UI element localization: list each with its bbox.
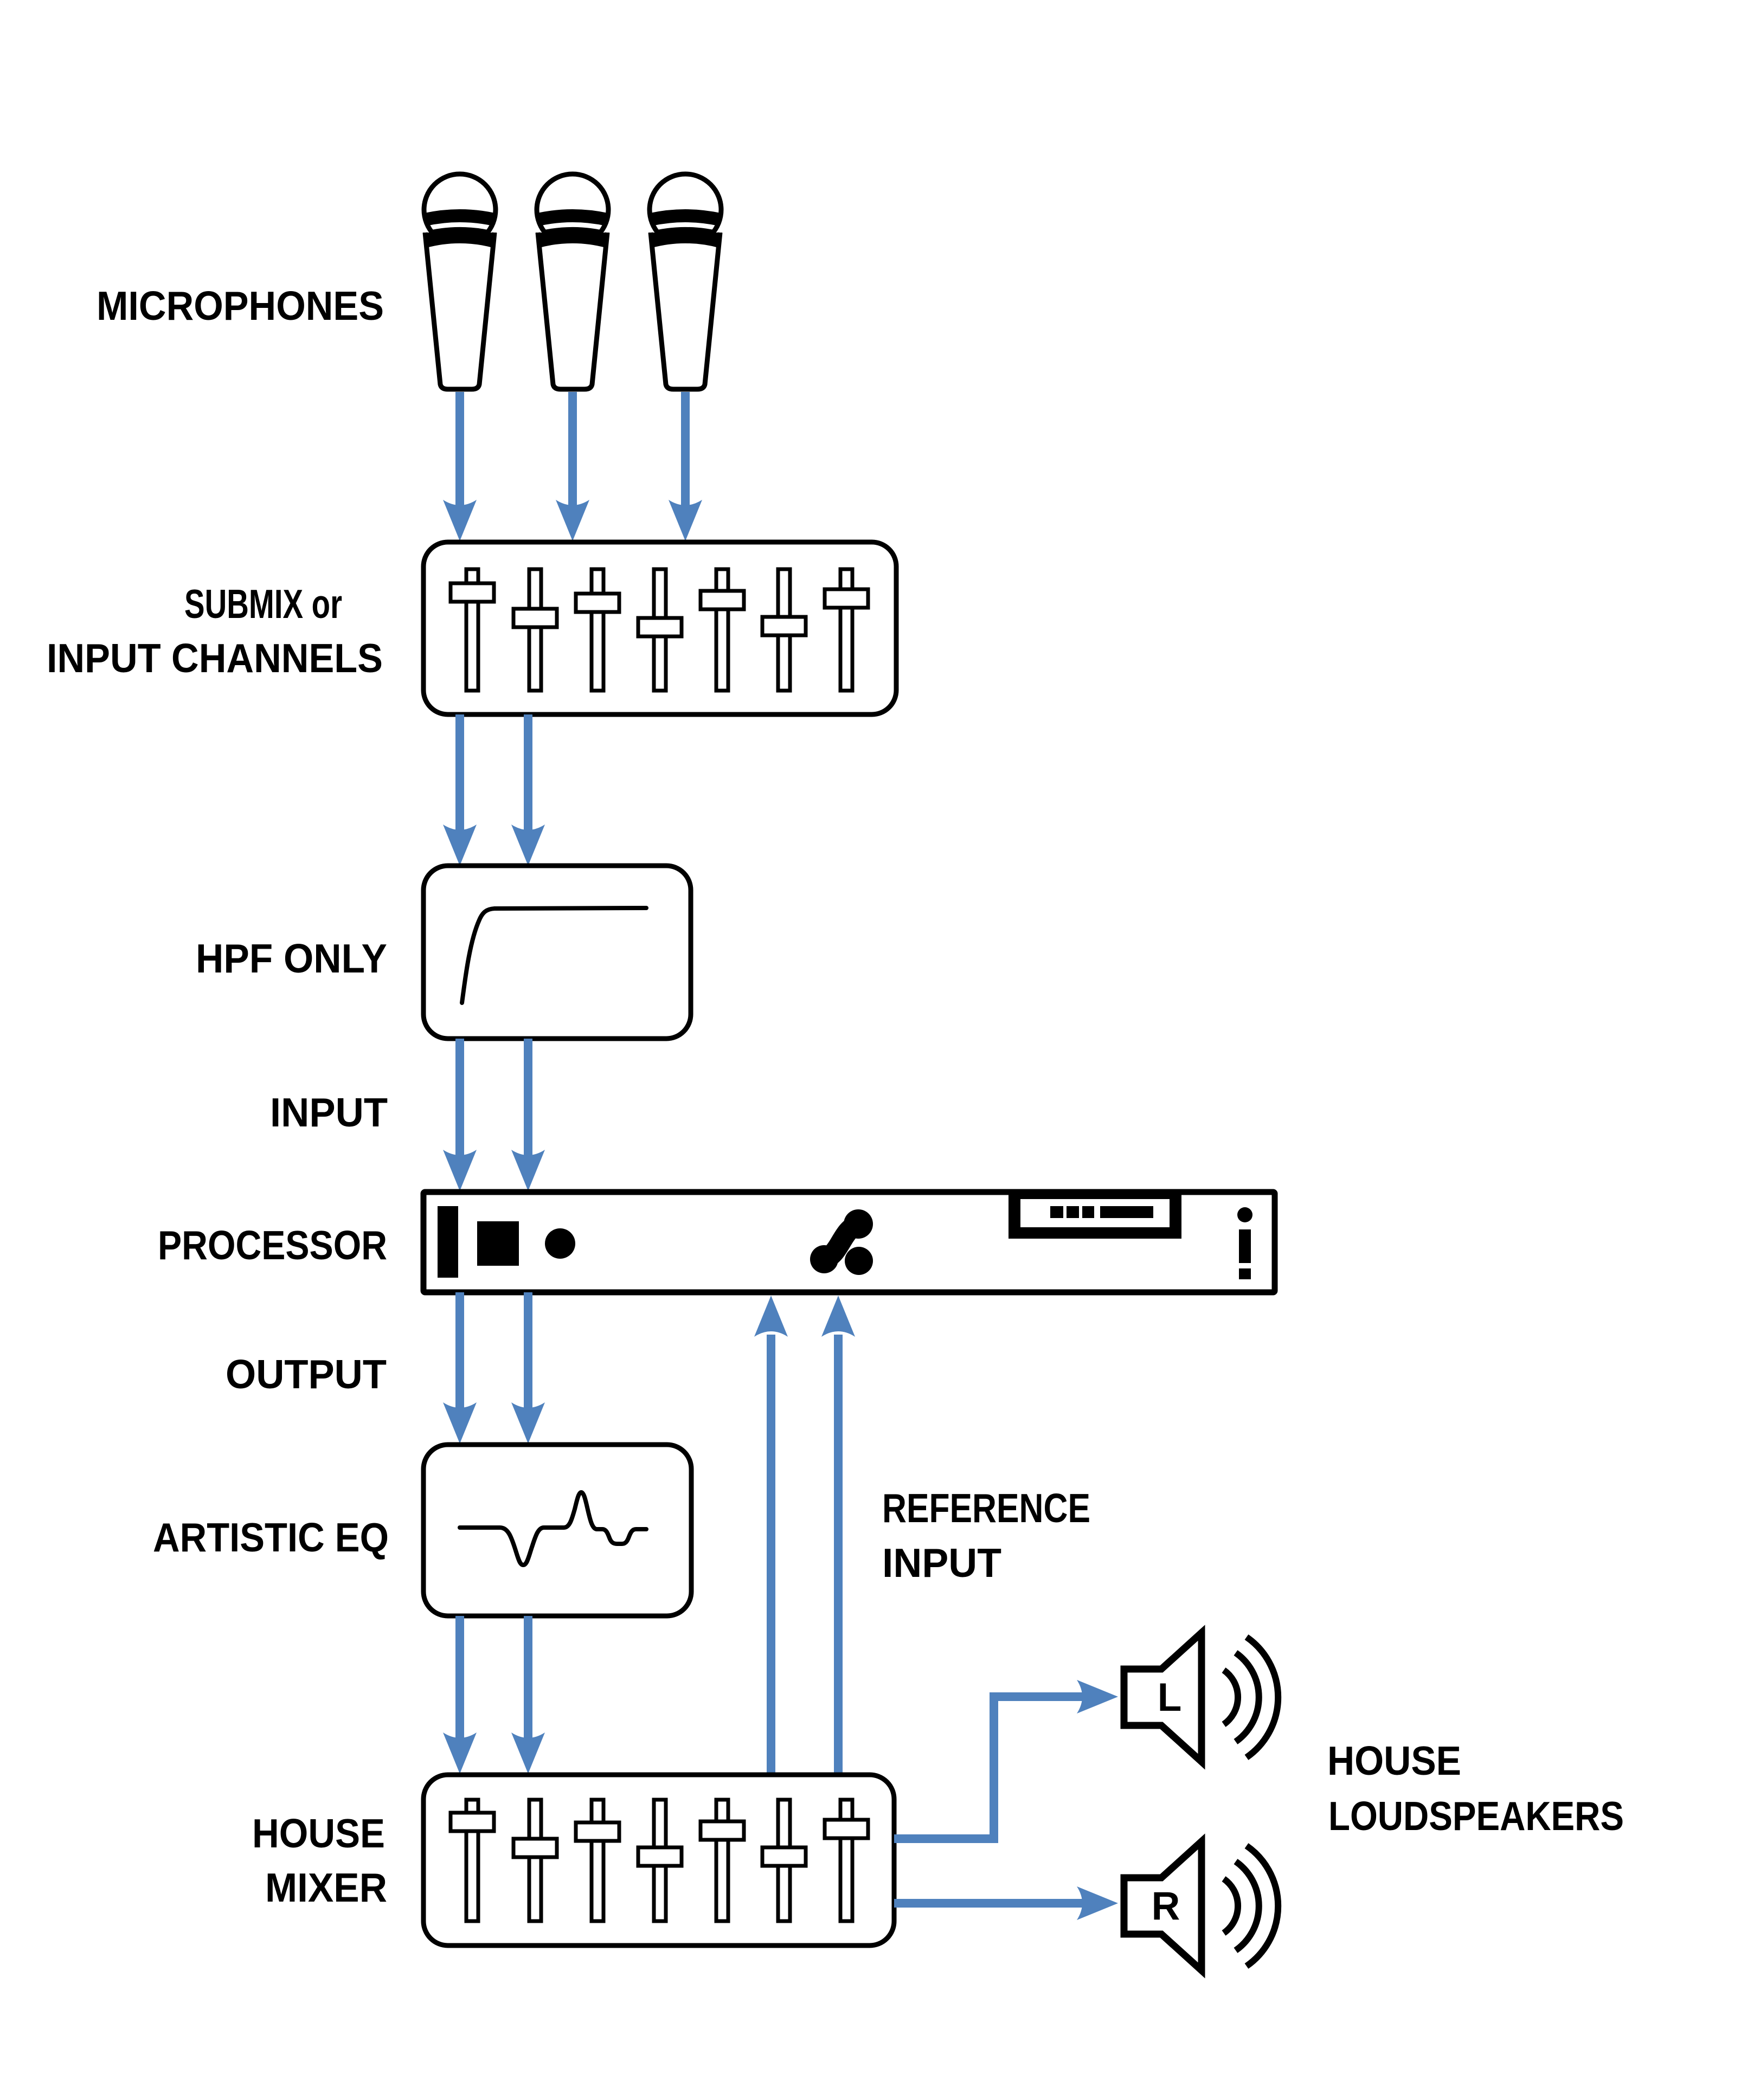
svg-text:R: R	[1152, 1884, 1180, 1928]
svg-text:HOUSE: HOUSE	[1327, 1738, 1461, 1783]
svg-text:MICROPHONES: MICROPHONES	[97, 283, 384, 328]
svg-text:LOUDSPEAKERS: LOUDSPEAKERS	[1328, 1793, 1624, 1839]
svg-text:MIXER: MIXER	[265, 1865, 387, 1910]
svg-text:INPUT: INPUT	[270, 1090, 388, 1135]
svg-text:OUTPUT: OUTPUT	[226, 1351, 387, 1397]
svg-text:SUBMIX or: SUBMIX or	[184, 581, 342, 627]
svg-text:L: L	[1158, 1676, 1182, 1719]
svg-text:REFERENCE: REFERENCE	[882, 1485, 1090, 1531]
svg-text:ARTISTIC EQ: ARTISTIC EQ	[153, 1515, 389, 1560]
svg-text:INPUT: INPUT	[882, 1540, 1001, 1586]
svg-text:INPUT CHANNELS: INPUT CHANNELS	[47, 635, 383, 681]
svg-text:PROCESSOR: PROCESSOR	[158, 1222, 387, 1268]
svg-text:HPF ONLY: HPF ONLY	[196, 936, 387, 981]
svg-text:HOUSE: HOUSE	[252, 1811, 385, 1856]
